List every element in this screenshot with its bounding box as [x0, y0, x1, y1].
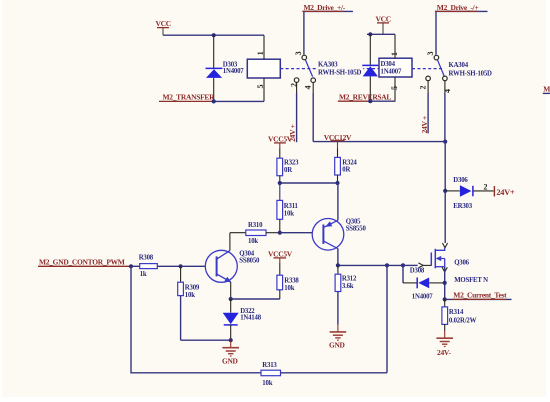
node junction left riser: [129, 264, 133, 268]
label KA303 RWH-SH-105D: [317, 60, 364, 77]
wire M2_REVERSAL net: [370, 100, 395, 102]
diode D306: [445, 185, 493, 196]
wire D308 branch down: [402, 265, 404, 283]
node junction R324 bottom: [335, 181, 339, 185]
pin 5 of relay K2: [390, 77, 399, 101]
wire KA304 pin2 to 24V+: [427, 93, 429, 133]
svg-text:KA304: KA304: [449, 62, 469, 69]
switch KA304 pin 4: [443, 76, 452, 93]
node junction source/R314: [443, 297, 447, 301]
svg-text:RWH-SH-105D: RWH-SH-105D: [449, 70, 493, 77]
wire VCC12V rail: [313, 141, 445, 143]
power symbol VCC (right): [376, 14, 391, 34]
diode D322: [223, 299, 239, 340]
svg-text:GND: GND: [329, 341, 345, 350]
svg-text:M2_TRANSFER: M2_TRANSFER: [163, 93, 216, 102]
power symbol VCC5V (lower): [268, 249, 293, 263]
svg-text:2: 2: [418, 86, 427, 90]
svg-text:1N4148: 1N4148: [240, 315, 262, 322]
wire Q304 base: [181, 265, 206, 267]
svg-text:24V+: 24V+: [496, 188, 515, 197]
pin arrow Q306 source: [442, 267, 447, 272]
resistor R309: [178, 266, 184, 340]
svg-text:3: 3: [294, 51, 303, 55]
svg-text:3.6k: 3.6k: [342, 283, 354, 290]
svg-text:R313: R313: [262, 362, 277, 369]
svg-text:M2_GND_CONTOR_PWM: M2_GND_CONTOR_PWM: [39, 257, 125, 266]
svg-text:2: 2: [484, 183, 488, 192]
switch KA304 pin 2: [418, 76, 430, 93]
wire Q304 collector to R310: [229, 233, 231, 251]
pin 1 of relay K2: [390, 34, 399, 58]
label R323 0R: [284, 160, 299, 174]
wire gate from node: [403, 264, 418, 266]
node junction Q304 emitter / R338: [229, 297, 233, 301]
transistor Q305 (PNP SS8550): [312, 219, 344, 251]
wire KA303 pin2 to 24V+: [296, 93, 298, 142]
svg-text:10k: 10k: [284, 285, 294, 292]
label R312 3.6k: [342, 276, 357, 290]
node junction source/D308: [443, 281, 447, 285]
switch KA303 pin 4: [304, 78, 316, 93]
net label M2_... (cut at right edge): [543, 85, 550, 94]
diode D308: [403, 278, 445, 289]
power port 24V+: [494, 186, 515, 197]
wire Q305 base: [280, 232, 312, 234]
diode D304: [362, 34, 378, 101]
svg-text:R310: R310: [248, 222, 263, 229]
svg-text:M2_Drive_-/+: M2_Drive_-/+: [437, 3, 479, 12]
svg-text:SS8050: SS8050: [239, 257, 260, 264]
switch KA303 lever: [305, 60, 312, 77]
svg-text:0.02R/2W: 0.02R/2W: [449, 317, 477, 324]
svg-text:0R: 0R: [342, 167, 350, 174]
resistor R314: [442, 299, 448, 331]
switch KA303 pin 2: [289, 78, 299, 93]
resistor R324: [335, 149, 341, 184]
svg-text:ER303: ER303: [453, 203, 472, 210]
power symbol 24V- (earth style): [436, 331, 453, 357]
switch KA304 pin 3: [426, 52, 439, 60]
label R309 10k: [185, 285, 200, 299]
pin 5 of relay K1: [256, 78, 265, 101]
transistor Q306 (MOSFET N): [431, 248, 444, 269]
svg-text:1k: 1k: [140, 271, 147, 278]
wire KA303 pin4 down to VCC12V rail: [312, 93, 314, 142]
svg-text:1: 1: [256, 51, 265, 55]
wire R323/R324 common rail: [280, 182, 338, 184]
wire VCC to relay K2 pin1: [367, 33, 395, 35]
svg-text:1N4007: 1N4007: [412, 293, 434, 300]
svg-text:RWH-SH-105D: RWH-SH-105D: [318, 69, 362, 76]
svg-text:10k: 10k: [284, 211, 294, 218]
label R310 10k: [248, 222, 263, 245]
svg-text:R324: R324: [342, 159, 357, 166]
svg-text:1N4007: 1N4007: [223, 68, 245, 75]
resistor R308: [140, 264, 181, 269]
transistor Q304 (NPN SS8050): [205, 250, 237, 282]
svg-text:R312: R312: [342, 276, 357, 283]
resistor R311: [277, 183, 283, 233]
svg-text:VCC: VCC: [376, 14, 391, 23]
resistor R338: [277, 263, 283, 299]
wire collector rail to D308 node: [338, 264, 403, 266]
label KA304 RWH-SH-105D: [447, 61, 494, 78]
relay coil K1 box: [247, 59, 280, 78]
switch KA303 pin 3: [294, 51, 307, 59]
svg-text:R309: R309: [185, 285, 200, 292]
pin arrow Q306 gate: [418, 263, 431, 268]
node junction R313 riser: [385, 263, 389, 267]
wire D306 node to Q306 drain: [444, 191, 446, 243]
svg-text:Q306: Q306: [454, 260, 469, 267]
label R338 10k: [284, 278, 299, 292]
svg-text:R338: R338: [284, 278, 299, 285]
resistor R312: [335, 265, 341, 324]
svg-text:10k: 10k: [248, 238, 258, 245]
resistor R313: [261, 370, 387, 376]
svg-text:GND: GND: [222, 356, 238, 365]
wire source down: [444, 267, 446, 300]
svg-text:D306: D306: [453, 177, 468, 184]
label Q305 SS8550: [346, 219, 367, 233]
svg-text:KA303: KA303: [318, 61, 338, 68]
node junction at D304 bottom: [368, 99, 372, 103]
label R324 0R: [342, 159, 357, 173]
wire 24V rail down right side: [444, 142, 446, 191]
dashed link relay K2 to switch KA304: [412, 68, 445, 70]
ground GND (under R312): [329, 325, 346, 350]
svg-text:SS8550: SS8550: [346, 225, 367, 232]
svg-text:R323: R323: [284, 160, 299, 167]
wire Q305 collector down: [337, 249, 339, 266]
pin 1 of relay K1: [256, 35, 265, 59]
node junction R311/R310/Q305 base: [278, 231, 282, 235]
svg-text:D304: D304: [381, 61, 396, 68]
svg-text:VCC: VCC: [156, 19, 171, 28]
svg-text:M2: M2: [543, 85, 550, 94]
node junction R323 bottom: [278, 181, 282, 185]
svg-text:R308: R308: [139, 255, 154, 262]
svg-text:5: 5: [256, 85, 265, 89]
wire KA304 pin4 down to rail: [444, 93, 446, 142]
label D322 1N4148: [240, 308, 262, 322]
power symbol VCC (left): [156, 19, 171, 35]
svg-text:VCC5V: VCC5V: [268, 249, 293, 258]
resistor R310: [230, 230, 280, 236]
diode D303: [206, 35, 223, 101]
node junction D322 anode / GND: [229, 338, 233, 342]
power symbol VCC12V: [324, 133, 352, 149]
node junction at D304 top: [368, 32, 372, 36]
ground GND (under D322): [222, 340, 239, 365]
relay coil K2 box: [379, 58, 412, 77]
svg-text:1: 1: [390, 52, 399, 56]
node junction at D303 bottom: [212, 99, 216, 103]
svg-text:0R: 0R: [284, 167, 292, 174]
svg-text:3: 3: [426, 52, 435, 56]
svg-text:1N4007: 1N4007: [381, 69, 403, 76]
svg-text:24V +: 24V +: [420, 116, 429, 133]
wire M2_TRANSFER net: [214, 100, 264, 102]
svg-text:D308: D308: [410, 267, 425, 274]
svg-text:M2_Drive_+/-: M2_Drive_+/-: [304, 3, 346, 12]
label R314 0.02R/2W: [449, 309, 477, 324]
node junction Q305 collector: [336, 263, 340, 267]
node junction gate/D308: [401, 263, 405, 267]
label D304 1N4007: [380, 59, 404, 75]
wire bottom rail riser to collector rail: [386, 265, 388, 372]
wire R309 to D322 node: [181, 339, 231, 341]
svg-text:10k: 10k: [185, 292, 195, 299]
svg-text:R311: R311: [284, 203, 299, 210]
node junction at D303 top: [212, 33, 216, 37]
net label M2_Drive_-/+ with wire: [435, 3, 488, 55]
wire Q304 emitter down: [230, 282, 232, 299]
wire M2_Current_Test net: [445, 298, 512, 300]
label Q304 SS8050: [239, 251, 260, 265]
wire left riser to bottom rail: [131, 266, 261, 373]
wire Q305 emitter up to rail: [337, 183, 339, 220]
svg-text:M2_REVERSAL: M2_REVERSAL: [339, 93, 391, 102]
svg-text:R314: R314: [449, 309, 464, 316]
svg-text:5: 5: [390, 86, 399, 90]
svg-text:4: 4: [304, 86, 313, 90]
label R311 10k: [284, 203, 299, 217]
node junction R308/R309/Q304 base: [179, 264, 183, 268]
svg-text:24V-: 24V-: [437, 348, 451, 357]
resistor R323: [277, 149, 283, 184]
switch KA304 lever: [437, 60, 444, 76]
dashed link relay K1 to switch KA303: [280, 68, 379, 70]
net label M2_Drive_+/- with wire: [302, 3, 353, 55]
svg-text:10k: 10k: [262, 380, 272, 387]
label D303 1N4007: [223, 62, 245, 75]
label R313 10k: [262, 362, 277, 387]
svg-text:VCC5V: VCC5V: [268, 134, 293, 143]
label R308 1k: [139, 255, 154, 278]
node junction rail x KA304 pin4: [443, 140, 447, 144]
node junction D306 tap: [443, 189, 447, 193]
pin arrow Q306 drain: [442, 243, 447, 248]
power symbol VCC5V (upper): [268, 134, 293, 148]
label D306 ER303: [453, 177, 472, 210]
wire emitter node to R338: [231, 298, 280, 300]
svg-text:MOSFET N: MOSFET N: [454, 277, 488, 284]
svg-text:M2_Current_Test: M2_Current_Test: [453, 291, 507, 300]
wire VCC rail to relay K1 pin1: [163, 34, 264, 36]
net label M2_GND_CONTOR_PWM with wire: [38, 257, 140, 266]
